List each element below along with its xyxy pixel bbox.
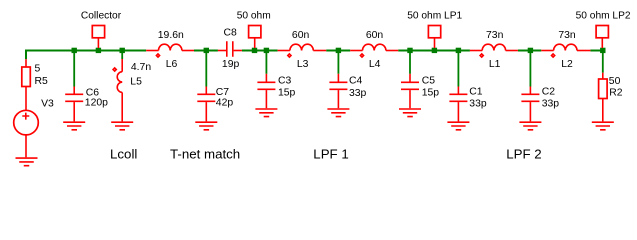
- svg-text:C8: C8: [224, 28, 238, 39]
- node junction C6: [72, 48, 77, 53]
- svg-text:L6: L6: [166, 59, 178, 70]
- pin marker L3: [288, 54, 291, 57]
- svg-text:19.6n: 19.6n: [158, 30, 184, 41]
- wire bus segment 7: [590, 50, 605, 52]
- node junction port 50ohm: [252, 48, 257, 53]
- wire stub R2: [602, 52, 604, 73]
- ground C4: [327, 109, 349, 117]
- inductor L3: [278, 30, 327, 70]
- svg-text:LPF 1: LPF 1: [313, 147, 348, 162]
- svg-text:C4: C4: [349, 76, 363, 87]
- capacitor C6: [65, 87, 108, 122]
- capacitor C5: [401, 74, 439, 108]
- wire bus segment 6: [518, 50, 541, 52]
- pin marker L2: [552, 54, 555, 57]
- resistor R5: [22, 59, 48, 110]
- port 50 ohm LP2: [576, 11, 631, 48]
- pin marker L1: [480, 54, 483, 57]
- node junction port LP2 / R2: [600, 48, 605, 53]
- svg-text:15p: 15p: [278, 88, 296, 99]
- capacitor C3: [257, 74, 295, 108]
- wire stub C5: [409, 52, 411, 74]
- pin marker L6: [156, 54, 159, 57]
- node junction C2: [528, 48, 533, 53]
- inductor L5: [113, 59, 151, 121]
- svg-text:42p: 42p: [216, 97, 234, 108]
- wire bus segment 5: [398, 50, 470, 52]
- node junction C7: [204, 48, 209, 53]
- wire bus segment 2: [194, 50, 218, 52]
- wire stub C1: [457, 52, 459, 87]
- inductor L1: [470, 30, 518, 70]
- svg-text:50 ohm LP1: 50 ohm LP1: [407, 11, 462, 22]
- port Collector: [81, 11, 122, 48]
- port 50 ohm LP1: [407, 11, 462, 48]
- svg-text:Collector: Collector: [81, 11, 122, 22]
- capacitor C1: [449, 87, 486, 122]
- pin marker L4: [360, 54, 363, 57]
- svg-text:4.7n: 4.7n: [131, 62, 151, 73]
- ground C2: [519, 122, 541, 130]
- svg-text:33p: 33p: [349, 88, 367, 99]
- wire stub C6: [73, 52, 75, 87]
- svg-text:73n: 73n: [486, 30, 504, 41]
- node junction Collector: [96, 48, 101, 53]
- svg-text:Lcoll: Lcoll: [110, 147, 137, 162]
- source V3: [14, 99, 54, 158]
- node junction C1: [456, 48, 461, 53]
- svg-text:120p: 120p: [85, 97, 108, 108]
- node junction port LP1: [432, 48, 437, 53]
- svg-text:15p: 15p: [422, 88, 440, 99]
- svg-text:LPF 2: LPF 2: [506, 147, 541, 162]
- wire stub C3: [265, 52, 267, 74]
- capacitor C8 (series): [218, 28, 242, 70]
- svg-text:50 ohm LP2: 50 ohm LP2: [576, 11, 631, 22]
- svg-text:L2: L2: [561, 59, 573, 70]
- port 50 ohm: [237, 11, 271, 48]
- svg-text:C2: C2: [542, 87, 556, 98]
- svg-text:60n: 60n: [366, 30, 384, 41]
- ground V3: [16, 158, 38, 166]
- ground C5: [399, 109, 421, 117]
- svg-text:5: 5: [35, 63, 41, 74]
- svg-text:C1: C1: [469, 87, 483, 98]
- wire left corner down to R5: [25, 50, 27, 60]
- capacitor C7: [197, 87, 233, 122]
- wire main bus segment 1: [26, 50, 146, 52]
- wire bus segment 3: [242, 50, 278, 52]
- ground C3: [255, 109, 277, 117]
- svg-text:R5: R5: [35, 76, 49, 87]
- ground R2: [592, 122, 614, 130]
- svg-text:33p: 33p: [542, 99, 560, 110]
- inductor L6: [146, 30, 194, 70]
- inductor L2: [541, 30, 590, 70]
- resistor R2: [599, 73, 623, 122]
- node junction C5: [407, 48, 412, 53]
- svg-text:50: 50: [609, 76, 621, 87]
- svg-text:T-net match: T-net match: [170, 147, 240, 162]
- svg-text:73n: 73n: [558, 30, 576, 41]
- svg-text:C3: C3: [278, 75, 292, 86]
- ground L5: [111, 122, 133, 130]
- wire stub L5: [121, 52, 123, 59]
- node junction C3: [264, 48, 269, 53]
- wire stub C7: [205, 52, 207, 87]
- svg-text:R2: R2: [609, 88, 623, 99]
- inductor L4: [350, 30, 398, 70]
- svg-text:19p: 19p: [222, 59, 240, 70]
- node junction L5: [120, 48, 125, 53]
- svg-text:L4: L4: [369, 59, 381, 70]
- wire stub C2: [529, 52, 531, 87]
- svg-text:L5: L5: [130, 77, 142, 88]
- svg-text:33p: 33p: [469, 99, 487, 110]
- ground C1: [447, 122, 469, 130]
- svg-text:60n: 60n: [292, 30, 310, 41]
- svg-text:L1: L1: [489, 59, 501, 70]
- ground C7: [195, 122, 217, 130]
- capacitor C2: [521, 87, 559, 122]
- pin marker L5: [113, 68, 116, 71]
- capacitor C4: [329, 74, 366, 108]
- svg-text:C5: C5: [422, 76, 436, 87]
- ground C6: [63, 122, 85, 130]
- wire bus segment 4: [326, 50, 350, 52]
- svg-text:V3: V3: [41, 99, 54, 110]
- svg-text:L3: L3: [297, 59, 309, 70]
- node junction C4: [336, 48, 341, 53]
- svg-text:50 ohm: 50 ohm: [237, 11, 271, 22]
- wire stub C4: [337, 52, 339, 74]
